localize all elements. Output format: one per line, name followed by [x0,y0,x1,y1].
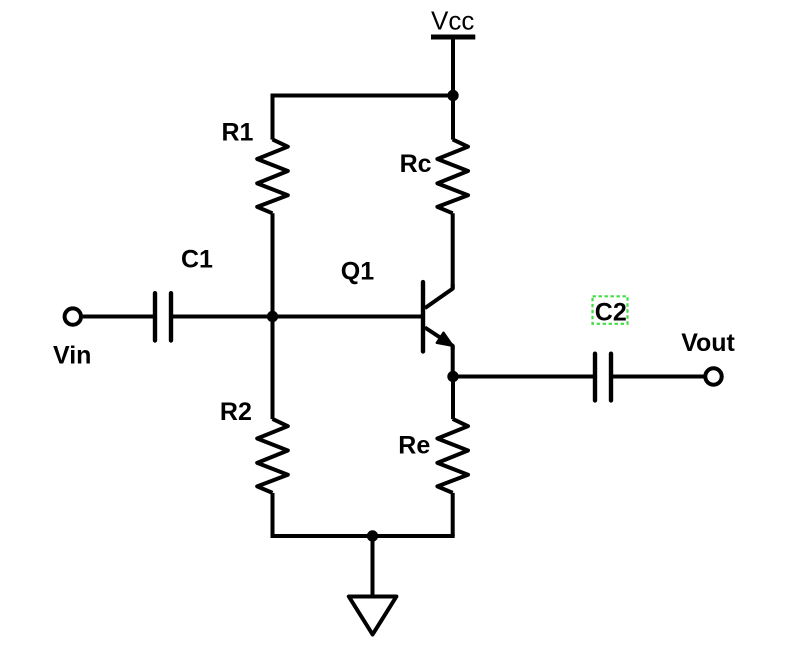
wire base node to R2 [271,317,275,420]
wire output node to C2 [453,375,595,379]
wire Re bottom [451,493,455,536]
wire R1 bottom to base node [271,213,275,316]
transistor Q1 [423,282,453,351]
junction dot ground node [367,530,378,541]
svg-text:R1: R1 [222,118,254,146]
terminal Vin circle [65,308,81,324]
selection box around C2 label [593,296,628,324]
wire ground stem [371,536,375,597]
svg-text:Vout: Vout [681,329,735,357]
wire C2 to Vout [611,375,704,379]
wire top rail [273,96,454,140]
capacitor C1 [155,293,171,340]
wire base node to Q1 base [273,315,422,319]
svg-text:Vin: Vin [53,341,91,369]
power supply symbol Vcc (bar) [431,35,475,40]
ground symbol triangle [349,597,397,635]
terminal Vout circle [705,368,721,384]
junction dot at Vcc / Rc node [447,90,458,101]
wire output node to Re [451,377,455,420]
svg-text:Vcc: Vcc [431,6,474,36]
wire R2 bottom [271,493,275,536]
svg-text:Re: Re [398,432,430,460]
wire emitter to output node [451,346,455,377]
svg-text:Rc: Rc [400,150,432,178]
wire Rc bottom to collector [451,213,455,288]
svg-text:C1: C1 [181,245,213,273]
junction dot base node [267,311,278,322]
wire Vcc stem [451,37,455,96]
resistor Re [437,419,468,493]
wire Rc top [451,96,455,140]
svg-text:Q1: Q1 [341,257,374,285]
junction dot emitter output node [447,371,458,382]
wire bottom rail [273,534,453,536]
resistor R2 [257,419,288,493]
svg-text:R2: R2 [220,398,252,426]
capacitor C2 [595,354,611,401]
svg-text:C2: C2 [595,298,627,326]
resistor Rc [437,139,468,213]
resistor R1 [257,139,288,213]
wire C1 to base node [171,315,273,319]
wire Vin to C1 [83,315,155,319]
